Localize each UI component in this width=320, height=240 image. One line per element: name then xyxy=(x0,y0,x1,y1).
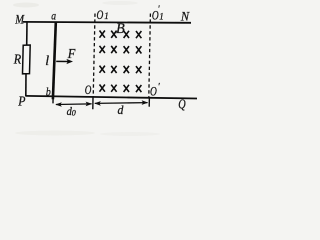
svg-text:d: d xyxy=(118,102,124,117)
dimension arrow d0 xyxy=(56,103,92,106)
svg-text:Q: Q xyxy=(178,96,186,111)
field cross row3 col3 xyxy=(124,66,129,73)
field cross row2 col2 xyxy=(111,46,116,53)
field cross row1 col2 xyxy=(111,31,116,38)
scan smudge top-middle xyxy=(102,1,138,5)
field cross row4 col2 xyxy=(111,85,116,92)
svg-text:R: R xyxy=(13,52,22,67)
rod ab xyxy=(53,23,56,100)
extension below O xyxy=(92,98,94,110)
field cross row4 col4 xyxy=(136,85,141,92)
svg-text:F: F xyxy=(67,46,76,61)
svg-text:l: l xyxy=(45,54,49,69)
dimension arrow d xyxy=(95,102,148,105)
field cross row3 col4 xyxy=(136,66,141,73)
svg-text:P: P xyxy=(17,93,25,108)
scan smudge bottom band xyxy=(15,131,95,136)
dashed line O1-O xyxy=(93,14,95,98)
force F arrow xyxy=(56,60,68,62)
svg-text:B: B xyxy=(116,21,125,37)
svg-text:M: M xyxy=(14,12,24,26)
field cross row3 col1 xyxy=(100,66,105,73)
wire top rail to resistor xyxy=(26,22,28,45)
field cross row1 col3 xyxy=(124,31,129,38)
field cross row2 col4 xyxy=(136,46,141,53)
field cross row2 col3 xyxy=(124,46,129,53)
field cross row4 col3 xyxy=(124,85,129,92)
field cross row1 col1 xyxy=(100,31,105,38)
bottom rail P-Q xyxy=(26,96,198,99)
svg-text:0: 0 xyxy=(72,108,76,117)
scan smudge top-left xyxy=(13,3,39,8)
dashed line O1'-O' xyxy=(149,14,151,98)
field cross row2 col1 xyxy=(100,46,105,53)
svg-text:N: N xyxy=(180,8,190,23)
svg-text:O: O xyxy=(97,7,104,22)
magnetic field crosses: 4 cols x 4 rows xyxy=(100,31,142,93)
svg-text:O: O xyxy=(150,83,157,98)
svg-text:1: 1 xyxy=(159,12,164,22)
svg-text:O: O xyxy=(85,82,92,97)
field cross row3 col2 xyxy=(111,66,116,73)
field cross row4 col1 xyxy=(100,85,105,92)
top rail M-N xyxy=(23,21,191,24)
svg-text:b: b xyxy=(46,84,51,98)
svg-text:a: a xyxy=(51,9,56,23)
wire resistor to bottom rail xyxy=(25,74,27,97)
extension below O' xyxy=(148,97,150,107)
resistor R box xyxy=(23,45,31,74)
svg-text:1: 1 xyxy=(104,11,109,21)
extension below rod xyxy=(52,97,54,103)
field cross row1 col4 xyxy=(136,31,141,38)
